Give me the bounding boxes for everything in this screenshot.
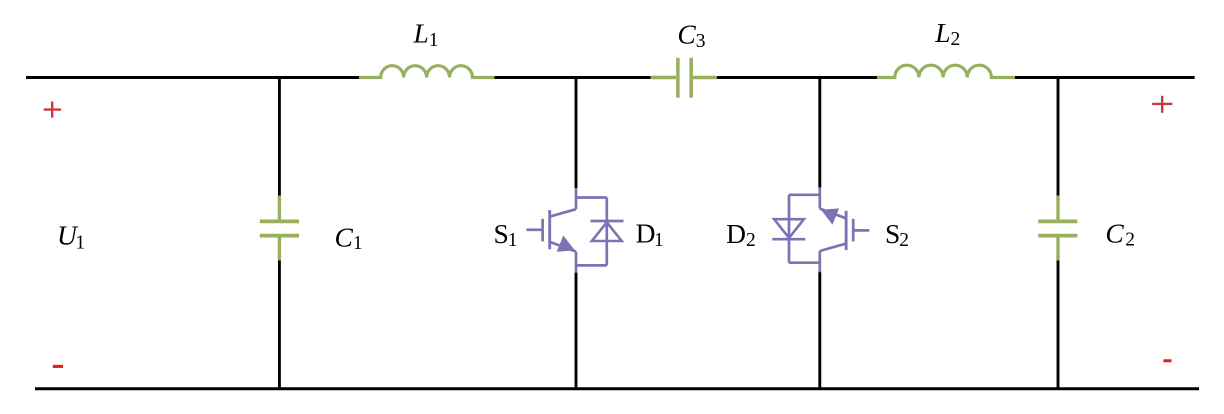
wire S1 branch upper bbox=[575, 77, 578, 190]
transistor S1 vertical bottom bbox=[575, 252, 578, 273]
inductor L1 bbox=[359, 66, 494, 78]
diode D1 triangle bbox=[592, 222, 622, 241]
transistor S2 collector diagonal bbox=[820, 244, 846, 251]
wire C1 branch upper bbox=[278, 77, 281, 198]
wire C2 branch upper bbox=[1057, 77, 1060, 198]
svg-text:C1: C1 bbox=[335, 222, 363, 255]
diode D1 vertical bbox=[605, 198, 608, 266]
wire S1 bottom branch to D1 bbox=[576, 264, 607, 267]
wire top bus segment 2 bbox=[494, 76, 650, 79]
wire top bus segment 3 bbox=[717, 76, 877, 79]
wire C2 branch lower bbox=[1057, 260, 1060, 390]
svg-text:L2: L2 bbox=[934, 17, 960, 50]
wire S2 branch lower bbox=[818, 271, 821, 390]
wire top bus segment 4 bbox=[1015, 76, 1195, 79]
svg-text:S1: S1 bbox=[494, 218, 518, 251]
transistor S2 gate bar bbox=[852, 219, 855, 242]
transistor S2 collector-emitter vertical top bbox=[818, 251, 821, 272]
capacitor C3 bbox=[651, 58, 717, 98]
transistor S2 emitter diagonal bbox=[820, 209, 846, 219]
wire S2 bottom branch to D2 bbox=[789, 193, 820, 196]
wire bottom bus bbox=[35, 387, 1199, 390]
inductor L2 bbox=[877, 65, 1015, 77]
svg-text:L1: L1 bbox=[413, 17, 439, 51]
wire S1 branch lower bbox=[575, 273, 578, 391]
transistor S1 collector-emitter vertical top bbox=[575, 188, 578, 209]
minus sign right bbox=[1163, 359, 1171, 362]
transistor S2 gate lead bbox=[854, 229, 869, 232]
wire C1 branch lower bbox=[278, 260, 281, 390]
diode D2 cathode bar bbox=[772, 238, 805, 241]
transistor S1 body bar bbox=[548, 210, 551, 249]
svg-text:C3: C3 bbox=[677, 19, 705, 53]
capacitor C1 bbox=[260, 196, 299, 261]
wire S2 branch upper bbox=[818, 77, 821, 188]
transistor S1 gate lead bbox=[526, 228, 541, 231]
plus sign left bbox=[44, 102, 61, 118]
capacitor C2 bbox=[1038, 196, 1077, 261]
svg-text:D2: D2 bbox=[726, 218, 756, 251]
svg-text:S2: S2 bbox=[885, 218, 909, 251]
transistor S1 emitter diagonal bbox=[550, 242, 576, 252]
diode D2 triangle bbox=[774, 219, 804, 238]
svg-text:C2: C2 bbox=[1105, 217, 1135, 250]
transistor S1 collector diagonal bbox=[550, 209, 576, 216]
transistor Q2 (IGBT S2) with diode D2 (180deg rotation of S1) bbox=[772, 187, 869, 272]
wire S2 branch to D2 bbox=[789, 261, 821, 264]
plus sign right bbox=[1152, 96, 1172, 113]
transistor S1 emitter arrow bbox=[558, 237, 574, 251]
transistor S1 gate bar bbox=[541, 219, 544, 242]
svg-text:U1: U1 bbox=[57, 220, 85, 254]
transistor S2 emitter arrow bbox=[822, 209, 838, 223]
diode D1 cathode bar bbox=[591, 220, 624, 223]
minus sign left bbox=[53, 365, 63, 368]
transistor S2 body bar bbox=[845, 211, 848, 250]
transistor S2 vertical bottom bbox=[818, 187, 821, 208]
wire top bus segment 1 bbox=[26, 76, 359, 79]
svg-text:D1: D1 bbox=[636, 217, 664, 251]
transistor Q1 (IGBT S1) with diode D1 bbox=[526, 188, 623, 273]
wire S1 top branch to D1 bbox=[575, 196, 607, 199]
diode D2 vertical bbox=[788, 195, 791, 263]
